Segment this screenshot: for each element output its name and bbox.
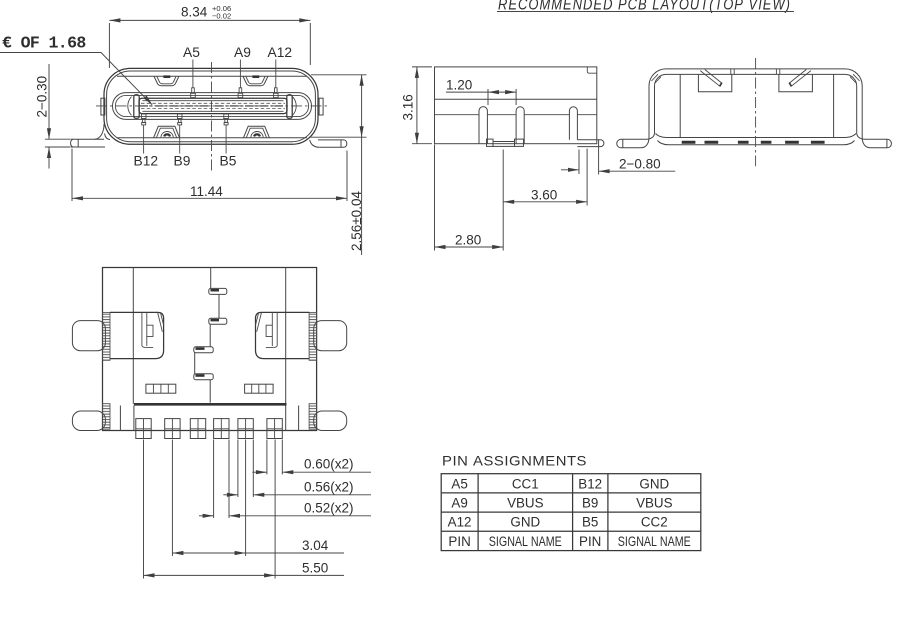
svg-text:SIGNAL NAME: SIGNAL NAME <box>489 534 562 549</box>
shell inner top line <box>117 75 307 77</box>
svg-text:€ OF 1.68: € OF 1.68 <box>2 34 86 53</box>
top view ladder contact right <box>245 384 274 393</box>
svg-text:PIN: PIN <box>579 534 601 549</box>
svg-text:A12: A12 <box>448 515 472 530</box>
dimension 3.04 <box>172 440 344 557</box>
svg-text:GND: GND <box>510 515 540 530</box>
pin label A12 <box>268 45 293 88</box>
svg-text:3.16: 3.16 <box>401 94 416 120</box>
side bump right <box>319 98 323 115</box>
svg-text:0.52(x2): 0.52(x2) <box>304 501 354 516</box>
svg-text:B12: B12 <box>134 154 159 169</box>
svg-text:A9: A9 <box>451 496 467 511</box>
rear contact feet dashes <box>682 141 825 144</box>
svg-text:A5: A5 <box>183 45 200 60</box>
dimension 8.34 +0.06/-0.02 <box>109 4 310 68</box>
right flange <box>318 140 347 147</box>
centerline note: C/L OF 1.68 <box>0 34 154 107</box>
dimension 2.80 <box>435 145 504 251</box>
tongue end cap left <box>134 95 139 119</box>
top view side tab upper-right <box>314 321 347 351</box>
front view outer shell <box>104 68 318 144</box>
top view side tab lower-right <box>314 411 347 431</box>
top view side tab lower-left <box>72 411 105 431</box>
svg-text:B9: B9 <box>174 154 191 169</box>
dimension 3.16 <box>401 67 433 144</box>
dimension 1.20 <box>446 78 516 106</box>
svg-text:11.44: 11.44 <box>190 184 223 199</box>
top view latch housing left <box>110 312 164 358</box>
pin B12 contact <box>141 114 146 125</box>
svg-text:3.60: 3.60 <box>531 188 557 203</box>
pin A9 contact <box>238 88 243 98</box>
svg-text:VBUS: VBUS <box>507 496 544 511</box>
rear bottom faces <box>656 134 857 145</box>
rear vertical centerline <box>755 58 757 166</box>
shell flange flare right <box>310 140 320 147</box>
top view latch housing right <box>256 312 310 358</box>
svg-text:PIN: PIN <box>448 534 470 549</box>
shell flange flare left <box>95 124 105 139</box>
dimension 0.56(x2) <box>223 440 371 498</box>
side view smt foot <box>487 139 524 146</box>
side view leg 2 <box>516 107 524 144</box>
pin B5 contact <box>224 114 229 125</box>
pin label A5 <box>183 45 200 88</box>
top view ladder contact left <box>146 384 176 393</box>
tongue end cap right <box>287 95 292 119</box>
svg-text:3.04: 3.04 <box>302 538 329 553</box>
svg-text:VBUS: VBUS <box>636 496 673 511</box>
dimension 11.44 <box>72 149 347 202</box>
rear latch spring right <box>789 70 811 87</box>
svg-text:2−0.80: 2−0.80 <box>619 157 661 172</box>
rear latch spring left <box>700 70 722 87</box>
top view smt pads <box>136 419 282 439</box>
title: RECOMMENDED PCB LAYOUT(TOP VIEW) <box>497 0 794 14</box>
svg-text:B12: B12 <box>578 476 602 491</box>
svg-text:8.34: 8.34 <box>181 5 208 20</box>
pin label B12 <box>134 125 159 169</box>
left flange <box>71 134 110 148</box>
dimension 2-0.30 <box>35 64 71 169</box>
dimension 2-0.80 <box>561 147 675 175</box>
top view shell hatched strips <box>103 312 317 429</box>
dimension 5.50 <box>144 440 345 579</box>
svg-text:5.50: 5.50 <box>302 561 328 576</box>
horizontal centerline <box>96 105 328 107</box>
top view front band <box>120 404 298 430</box>
svg-text:2−0.30: 2−0.30 <box>35 76 50 118</box>
svg-text:2.80: 2.80 <box>455 233 481 248</box>
rear shell bend ticks <box>652 69 860 84</box>
rear shell outline <box>617 69 892 148</box>
cavity end arcs <box>128 97 296 116</box>
vertical centerline <box>211 62 213 171</box>
shell inner bottom line <box>117 137 307 139</box>
top view side tab upper-left <box>72 321 105 351</box>
pin label B9 <box>174 125 191 169</box>
svg-text:PIN ASSIGNMENTS: PIN ASSIGNMENTS <box>442 454 587 469</box>
dimension 0.52(x2) <box>199 440 371 519</box>
svg-text:0.60(x2): 0.60(x2) <box>304 457 354 472</box>
side view right foot <box>577 140 604 147</box>
pin A5 contact <box>191 88 196 98</box>
table grid <box>441 474 701 551</box>
pin A12 contact <box>274 88 279 98</box>
svg-text:A5: A5 <box>451 476 467 491</box>
svg-text:GND: GND <box>639 476 669 491</box>
svg-text:1.20: 1.20 <box>446 78 472 93</box>
svg-text:0.56(x2): 0.56(x2) <box>304 480 354 495</box>
bottom notch 1 (hat bump) <box>154 126 180 138</box>
side view leg 1 <box>479 107 487 144</box>
table cells <box>448 476 691 549</box>
bottom notch 2 (hat bump) <box>244 126 270 138</box>
svg-text:CC1: CC1 <box>512 476 539 491</box>
top view body outline <box>103 268 317 431</box>
side view body <box>435 67 597 144</box>
pin label B5 <box>220 125 237 169</box>
rear latch box left <box>698 74 731 91</box>
pin B9 contact <box>177 114 182 125</box>
svg-text:2.56±0.04: 2.56±0.04 <box>349 191 364 251</box>
svg-text:B9: B9 <box>582 496 598 511</box>
pin label A9 <box>234 45 251 88</box>
dimension 2.56±0.04 <box>309 75 367 255</box>
svg-text:B5: B5 <box>582 515 598 530</box>
front view inner cavity <box>113 93 312 120</box>
top view center retention clips <box>194 268 227 403</box>
tongue blade <box>139 98 287 113</box>
svg-text:A12: A12 <box>268 45 293 60</box>
top notch 1 (cup) <box>154 76 179 85</box>
svg-text:A9: A9 <box>234 45 251 60</box>
top notch 2 (cup) <box>243 76 268 85</box>
dimension 0.60(x2) <box>252 440 371 475</box>
dimension 3.60 <box>503 149 587 251</box>
rear inner walls <box>680 74 833 138</box>
side view leg 3 <box>569 107 577 140</box>
svg-text:SIGNAL NAME: SIGNAL NAME <box>618 534 691 549</box>
svg-text:CC2: CC2 <box>641 515 668 530</box>
rear latch box right <box>779 74 813 91</box>
svg-text:B5: B5 <box>220 154 237 169</box>
svg-text:−0.02: −0.02 <box>212 12 231 21</box>
side bump left <box>101 98 105 115</box>
